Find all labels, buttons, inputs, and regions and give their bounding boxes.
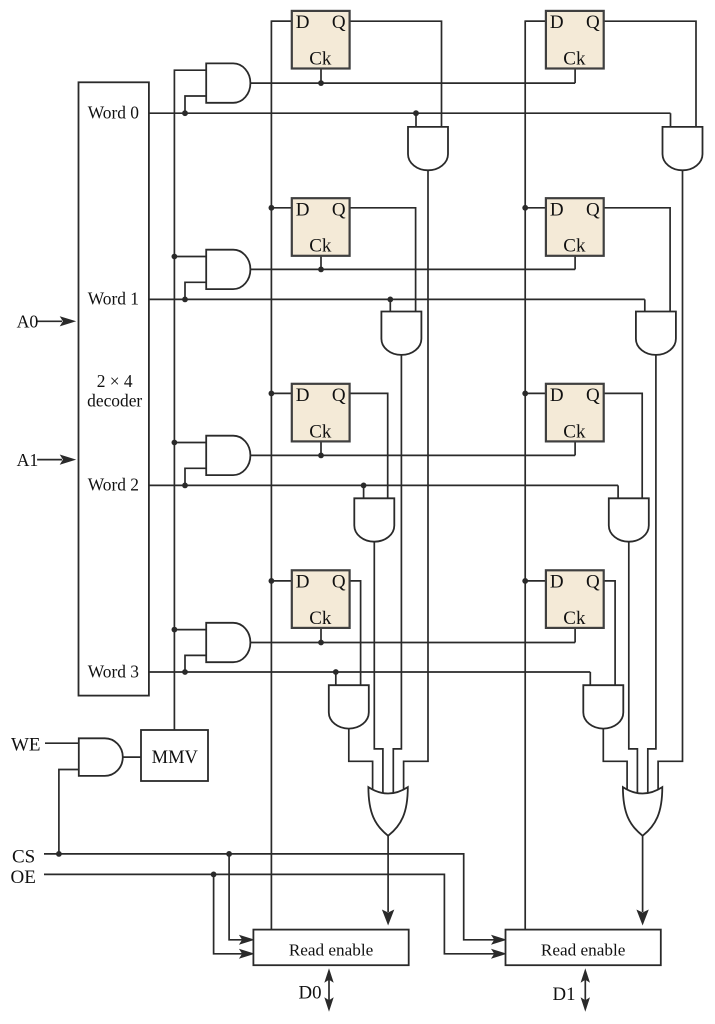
junction: CS line / write-control AND branch <box>56 851 62 857</box>
wire: read AND output row 3 bit 0 down to OR gate input <box>349 727 373 797</box>
wire: D input stub row 2 bit 0 <box>271 392 294 394</box>
wire: data bit 0 column from D inputs down to Read enable <box>271 21 294 931</box>
wire: write AND W2 top input stub from MMV column <box>174 442 208 444</box>
wire: OE branch into Read enable 0 <box>214 874 251 953</box>
junction: MMV column / write AND W2 top input <box>172 440 178 446</box>
svg-text:D: D <box>296 199 310 220</box>
wire: Word 3 drop into bit-1 read AND left input <box>589 672 591 689</box>
svg-text:D1: D1 <box>553 984 576 1005</box>
wire: Ck pin of flip-flop row 3 bit 0 <box>320 626 322 643</box>
wire: write AND W2 bottom input stub from Word 2 <box>185 468 208 485</box>
D flip-flop row 2 bit 1 <box>546 384 604 443</box>
svg-text:decoder: decoder <box>87 390 142 410</box>
wire: Word 1 line from decoder to column read gates <box>149 298 645 300</box>
wire: MMV output column up to write AND W0 top input <box>174 70 208 730</box>
wire: Word 2 drop into bit-1 read AND left input <box>617 485 619 502</box>
wire: Ck pin of flip-flop row 2 bit 1 <box>574 439 576 455</box>
svg-text:Ck: Ck <box>309 421 332 442</box>
wire: data bit 1 column from D inputs down to Read enable <box>525 21 549 931</box>
svg-text:Ck: Ck <box>563 48 586 69</box>
wire: row 2 clock line from write AND to Ck pins <box>248 454 575 456</box>
arrowhead: CS into Read enable 1 <box>491 935 507 945</box>
junction: clock line / bit-0 Ck pin row 1 <box>318 267 324 273</box>
junction: data column bit 0 / D input row 3 <box>269 578 275 584</box>
svg-text:Ck: Ck <box>309 48 332 69</box>
arrowhead: D0 up <box>324 968 333 983</box>
junction: clock line / bit-0 Ck pin row 0 <box>318 80 324 86</box>
wire: read AND output row 0 bit 1 down to OR gate input <box>658 168 682 796</box>
junction: MMV column / write AND W3 top input <box>172 627 178 633</box>
svg-text:Ck: Ck <box>309 236 332 257</box>
junction: Word 0 / bit-0 read AND <box>413 110 419 116</box>
junction: Word 3 / write AND input stub <box>182 669 188 675</box>
D flip-flop row 2 bit 0 <box>292 384 350 443</box>
arrowhead: A1 into decoder <box>60 455 76 465</box>
junction: clock line / bit-0 Ck pin row 2 <box>318 453 324 459</box>
svg-text:D: D <box>296 12 310 33</box>
wire: Word 0 drop into bit-0 read AND left input <box>415 113 417 131</box>
wire: WE input line <box>45 742 81 744</box>
svg-text:Ck: Ck <box>563 608 586 629</box>
wire: OE line <box>44 874 503 953</box>
AND gate read row 3 bit 0 <box>329 685 369 728</box>
wire: Word 3 drop into bit-0 read AND left input <box>335 672 337 689</box>
arrowhead: OR output into Read enable box 1 <box>636 910 648 926</box>
wire: row 1 clock line from write AND to Ck pins <box>248 268 575 270</box>
junction: data column bit 0 / D input row 1 <box>269 205 275 211</box>
AND gate read row 2 bit 0 <box>354 498 394 541</box>
junction: data column bit 1 / D input row 1 <box>522 205 528 211</box>
wire: read AND output row 1 bit 0 down to OR gate input <box>393 353 401 796</box>
arrowhead: OR output into Read enable box 0 <box>382 910 394 926</box>
wire: write AND W1 bottom input stub from Word 1 <box>185 282 208 299</box>
Read enable box bit 0 <box>253 930 408 966</box>
wire: Q output row 0 bit 0 to read AND right input <box>347 21 442 131</box>
AND gate read row 2 bit 1 <box>609 498 649 541</box>
svg-text:D: D <box>550 572 564 593</box>
svg-text:WE: WE <box>11 734 41 755</box>
arrowhead: OE into Read enable 1 <box>491 949 507 959</box>
svg-text:D: D <box>296 572 310 593</box>
junction: Word 2 / write AND input stub <box>182 483 188 489</box>
wire: Ck pin of flip-flop row 0 bit 0 <box>320 67 322 84</box>
arrowhead: D0 down <box>324 997 333 1012</box>
wire: D input stub row 1 bit 1 <box>525 207 549 209</box>
svg-text:Q: Q <box>586 12 600 33</box>
arrowhead: D1 up <box>581 968 590 983</box>
svg-text:Q: Q <box>586 572 600 593</box>
wire: Q output row 2 bit 1 to read AND right input <box>601 393 643 502</box>
D flip-flop row 0 bit 0 <box>292 11 350 70</box>
wire: Ck pin of flip-flop row 2 bit 0 <box>320 439 322 455</box>
AND gate read row 0 bit 0 <box>408 127 448 170</box>
wire: write AND W1 top input stub from MMV column <box>174 256 208 258</box>
wire: Word 2 line from decoder to column read gates <box>149 484 618 486</box>
junction: MMV column / write AND W1 top input <box>172 254 178 260</box>
wire: write AND W0 bottom input stub from Word 0 <box>185 96 208 113</box>
wire: read AND output row 2 bit 0 down to OR gate input <box>374 540 383 796</box>
svg-text:D: D <box>550 385 564 406</box>
junction: Word 1 / write AND input stub <box>182 297 188 303</box>
wire: Q output row 3 bit 0 to read AND right input <box>347 581 361 689</box>
wire: D input stub row 3 bit 0 <box>271 580 294 582</box>
wire: row 3 clock line from write AND to Ck pins <box>248 642 575 644</box>
D flip-flop row 3 bit 0 <box>292 570 350 629</box>
svg-text:Q: Q <box>586 199 600 220</box>
wire: CS branch up to write-control AND bottom input <box>59 770 81 854</box>
wire: D input stub row 3 bit 1 <box>525 580 549 582</box>
AND gate W2 (write pulse gating, row 2) <box>206 436 250 475</box>
svg-text:D: D <box>296 385 310 406</box>
AND gate W3 (write pulse gating, row 3) <box>206 623 250 662</box>
wire: D input stub row 0 bit 0 <box>271 20 294 22</box>
svg-text:Word 3: Word 3 <box>88 661 140 681</box>
wire: read AND output row 1 bit 1 down to OR gate input <box>648 353 656 796</box>
OR gate bit 1 (read data combine) <box>623 787 662 835</box>
wire: Ck pin of flip-flop row 1 bit 1 <box>574 254 576 270</box>
svg-text:Word 1: Word 1 <box>88 289 139 309</box>
svg-text:Read enable: Read enable <box>541 941 626 960</box>
wire: write-control AND output to MMV <box>124 756 142 758</box>
svg-text:Ck: Ck <box>563 236 586 257</box>
wire: Word 0 line from decoder to column read gates <box>149 112 671 114</box>
wire: CS line <box>44 854 503 940</box>
wire: D input stub row 1 bit 0 <box>271 207 294 209</box>
wire: CS branch into Read enable 0 <box>229 854 250 940</box>
wire: D input stub row 2 bit 1 <box>525 392 549 394</box>
AND gate read row 1 bit 0 <box>381 312 421 355</box>
D flip-flop row 0 bit 1 <box>546 11 604 70</box>
OR gate bit 0 (read data combine) <box>368 787 407 835</box>
wire: Q output row 3 bit 1 to read AND right input <box>601 581 615 689</box>
svg-text:Ck: Ck <box>563 421 586 442</box>
wire: write AND W3 bottom input stub from Word 3 <box>185 655 208 672</box>
wire: Ck pin of flip-flop row 0 bit 1 <box>574 67 576 84</box>
svg-text:A1: A1 <box>17 450 39 470</box>
arrowhead: OE into Read enable 0 <box>239 949 255 959</box>
D flip-flop row 3 bit 1 <box>546 570 604 629</box>
wire: read AND output row 3 bit 1 down to OR gate input <box>603 727 627 797</box>
wire: write AND W3 top input stub from MMV column <box>174 629 208 631</box>
svg-text:OE: OE <box>10 867 35 888</box>
AND gate W1 (write pulse gating, row 1) <box>206 250 250 289</box>
svg-text:Read enable: Read enable <box>289 941 374 960</box>
wire: OR gate bit 1 output down to Read enable <box>642 833 644 912</box>
wire: D input stub row 0 bit 1 <box>525 20 549 22</box>
svg-text:D: D <box>550 12 564 33</box>
svg-text:CS: CS <box>12 847 35 868</box>
svg-text:2 × 4: 2 × 4 <box>97 371 133 391</box>
svg-text:Word 0: Word 0 <box>88 103 140 123</box>
svg-text:Q: Q <box>332 12 346 33</box>
wire: read AND output row 0 bit 0 down to OR gate input <box>404 168 428 796</box>
MMV monostable multivibrator box <box>141 730 208 781</box>
wire: row 0 clock line from write AND to Ck pins <box>248 82 575 84</box>
svg-text:D: D <box>550 199 564 220</box>
svg-text:MMV: MMV <box>152 748 199 768</box>
wire: Q output row 1 bit 0 to read AND right input <box>347 208 416 316</box>
svg-text:D0: D0 <box>299 983 322 1004</box>
wire: Q output row 1 bit 1 to read AND right input <box>601 208 670 316</box>
arrowhead: CS into Read enable 0 <box>239 935 255 945</box>
wire: A1 address input <box>37 459 62 461</box>
wire: Word 3 line from decoder to column read gates <box>149 671 590 673</box>
svg-text:Q: Q <box>332 199 346 220</box>
AND gate read row 1 bit 1 <box>636 312 676 355</box>
D flip-flop row 1 bit 0 <box>292 198 350 257</box>
svg-text:Q: Q <box>586 385 600 406</box>
junction: Word 2 / bit-0 read AND <box>361 483 367 489</box>
wire: OR gate bit 0 output down to Read enable <box>387 833 389 912</box>
svg-text:A0: A0 <box>17 311 39 331</box>
AND gate W0 (write pulse gating, row 0) <box>206 63 250 102</box>
D flip-flop row 1 bit 1 <box>546 198 604 257</box>
wire: Word 0 drop into bit-1 read AND left input <box>670 113 672 131</box>
junction: data column bit 0 / D input row 2 <box>269 391 275 397</box>
wire: Word 1 drop into bit-0 read AND left input <box>389 299 391 315</box>
wire: Word 2 drop into bit-0 read AND left input <box>363 485 365 502</box>
junction: Word 1 / bit-0 read AND <box>387 297 393 303</box>
junction: data column bit 1 / D input row 2 <box>522 391 528 397</box>
AND gate read row 3 bit 1 <box>583 685 623 728</box>
junction: OE line / Read enable 0 branch <box>211 872 217 878</box>
svg-text:Ck: Ck <box>309 608 332 629</box>
junction: data column bit 1 / D input row 3 <box>522 578 528 584</box>
svg-text:Q: Q <box>332 572 346 593</box>
junction: Word 3 / bit-0 read AND <box>333 669 339 675</box>
wire: A0 address input <box>37 320 62 322</box>
wire: Q output row 2 bit 0 to read AND right input <box>347 393 388 502</box>
svg-text:Word 2: Word 2 <box>88 475 139 495</box>
wire: D1 bidirectional data line <box>584 972 586 1006</box>
svg-text:Q: Q <box>332 385 346 406</box>
junction: clock line / bit-0 Ck pin row 3 <box>318 640 324 646</box>
AND gate read row 0 bit 1 <box>663 127 703 170</box>
arrowhead: D1 down <box>581 997 590 1012</box>
wire: Q output row 0 bit 1 to read AND right input <box>601 21 696 131</box>
wire: Word 1 drop into bit-1 read AND left input <box>644 299 646 315</box>
wire: read AND output row 2 bit 1 down to OR gate input <box>629 540 638 796</box>
wire: Ck pin of flip-flop row 1 bit 0 <box>320 254 322 270</box>
2x4 decoder box <box>79 82 149 695</box>
junction: CS line / Read enable 0 branch <box>226 851 232 857</box>
Read enable box bit 1 <box>506 930 661 966</box>
junction: Word 0 / write AND input stub <box>182 110 188 116</box>
wire: Ck pin of flip-flop row 3 bit 1 <box>574 626 576 643</box>
AND gate body WE/CS <box>79 738 123 776</box>
arrowhead: A0 into decoder <box>60 316 76 326</box>
wire: D0 bidirectional data line <box>328 972 330 1006</box>
